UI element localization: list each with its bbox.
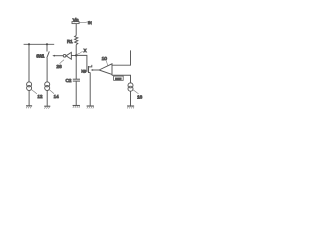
wire node X to transistor N3 gate	[76, 55, 87, 72]
leader line label 10	[106, 60, 108, 65]
arrowhead control arrow to SW1	[52, 55, 55, 57]
leader line label 26	[60, 60, 64, 64]
wire pad to resistor R1	[75, 24, 77, 36]
svg-text:REF: REF	[115, 77, 121, 81]
wire transistor N3 source to ground	[89, 73, 91, 106]
inverter 26	[66, 52, 71, 59]
node junction dot left branch	[28, 43, 30, 45]
switch SW1 blade	[47, 51, 50, 58]
capacitor C2	[73, 79, 80, 81]
wire current source 14 to ground	[46, 91, 48, 106]
ground under current source 16	[127, 106, 134, 109]
svg-text:10: 10	[102, 56, 108, 62]
inverter 26 output bubble	[63, 54, 66, 57]
leader line label 14	[48, 89, 54, 94]
terminal pad Vin	[72, 22, 79, 24]
wire inverter output to arrow	[54, 55, 63, 57]
svg-text:Vin: Vin	[73, 17, 79, 22]
node X junction dot	[75, 54, 77, 56]
svg-text:C2: C2	[66, 78, 72, 84]
transistor N3	[89, 65, 92, 73]
wire switch branch upper	[46, 44, 48, 51]
block REF	[114, 76, 124, 80]
current source 12	[27, 82, 32, 91]
wire resistor to node X	[75, 45, 77, 79]
leader line label 12	[31, 90, 37, 94]
current source 14	[45, 82, 50, 91]
wire comparator output arrow	[93, 69, 99, 71]
comparator 10	[99, 64, 112, 75]
ground under transistor N3	[87, 106, 94, 109]
leader line label IN	[79, 21, 87, 24]
svg-text:IN: IN	[88, 20, 92, 25]
svg-text:16: 16	[137, 94, 143, 99]
current source 16	[128, 83, 133, 91]
leader line label 16	[132, 89, 138, 94]
svg-text:26: 26	[56, 64, 62, 70]
wire supply rail	[24, 43, 55, 45]
ground under capacitor C2	[73, 106, 80, 109]
wire current source 16 to ground	[130, 91, 132, 106]
svg-text:14: 14	[54, 94, 60, 99]
leader line label X	[77, 51, 83, 54]
ground under current source 14	[44, 106, 50, 109]
node junction dot switch branch	[46, 43, 48, 45]
arrowhead comparator output to N3	[91, 69, 94, 71]
svg-text:12: 12	[37, 94, 43, 99]
svg-text:SW1: SW1	[36, 53, 45, 58]
wire comparator bottom input to REF node	[112, 74, 131, 83]
svg-text:N3: N3	[81, 68, 86, 73]
wire capacitor C2 to ground	[75, 81, 77, 105]
svg-text:R1: R1	[67, 39, 73, 44]
wire switch branch lower	[46, 58, 48, 82]
ground under current source 12	[26, 106, 32, 109]
wire comparator top input	[112, 50, 131, 65]
wire left branch down	[28, 44, 30, 82]
svg-text:X: X	[84, 48, 87, 53]
wire current source 12 to ground	[28, 91, 30, 106]
resistor R1	[75, 36, 78, 45]
wire inverter input to node X	[71, 55, 76, 57]
